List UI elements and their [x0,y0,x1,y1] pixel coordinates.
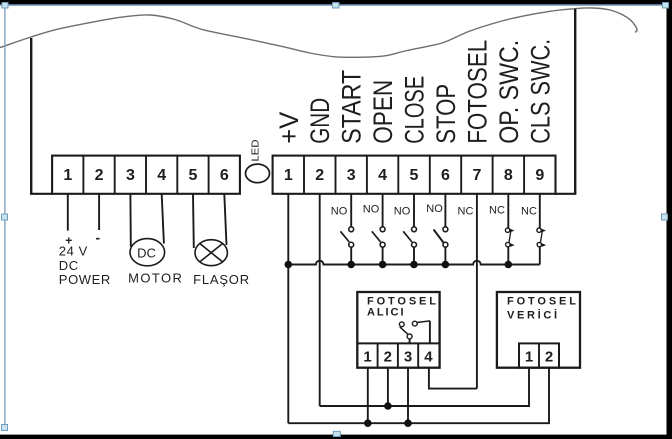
wire flasher right [224,194,226,245]
wire FOTOSEL down [476,194,478,389]
svg-text:NC: NC [458,205,474,217]
svg-text:CLOSE: CLOSE [400,76,430,144]
svg-text:2: 2 [315,167,324,184]
frame: blue top line [0,4,668,5]
svg-text:2: 2 [545,349,553,366]
svg-text:4: 4 [424,349,433,366]
VERICI terminal row [519,343,559,367]
svg-text:FLAŞOR: FLAŞOR [193,272,250,287]
svg-text:3: 3 [126,167,135,184]
svg-text:DC: DC [137,246,156,261]
VERICI terminal numbers [525,349,553,366]
svg-text:STOP: STOP [431,84,461,144]
right terminal block separators [304,156,524,194]
left terminal numbers 1-6 [63,167,229,184]
NO switch S4 (STOP) [434,194,448,265]
relay contact inside ALICI [399,321,430,344]
junction dots bottom [364,402,412,427]
ALICI terminal row [357,342,439,344]
board left edge [30,38,32,194]
svg-text:3: 3 [347,167,356,184]
svg-text:2: 2 [95,167,104,184]
svg-text:NC: NC [489,204,505,216]
common bus wire [288,261,540,265]
svg-text:7: 7 [472,167,481,184]
svg-text:NO: NO [363,204,380,216]
wire terminal1 left (+) [67,194,69,231]
svg-text:OPEN: OPEN [368,80,398,144]
svg-text:START: START [337,70,367,144]
svg-text:NO: NO [426,203,443,215]
svg-text:1: 1 [284,167,293,184]
vertical pin labels [274,39,556,144]
board torn top edge (wavy line) [0,8,637,57]
NC switch S5 (OP.SWC) [505,194,514,265]
svg-text:MOTOR: MOTOR [128,271,183,286]
board bottom-right edge [555,193,577,195]
wire motor left [129,194,131,247]
wire ALICI t4 to FOTOSEL [429,368,477,389]
right terminal numbers 1-9 [284,167,545,184]
left terminal block outline [52,156,240,194]
label 24V DC POWER [59,244,111,288]
svg-text:-: - [95,230,100,246]
wire ALICI t2 down [387,368,389,406]
svg-text:GND: GND [305,98,335,144]
LED indicator [246,164,270,183]
NC switch S6 (CLS.SWC) [537,194,546,265]
svg-text:FOTOSEL: FOTOSEL [462,40,492,144]
svg-text:LED: LED [250,139,262,161]
left terminal block separators [83,156,208,194]
svg-text:+V: +V [274,112,304,144]
FOTOSEL ALICI box [357,292,439,368]
frame: right black bar [667,0,672,439]
svg-text:5: 5 [410,167,419,184]
svg-text:CLS SWC.: CLS SWC. [525,39,555,144]
board right edge [574,9,576,194]
wire +V down [287,194,289,423]
svg-text:2: 2 [384,349,392,366]
svg-text:OP. SWC.: OP. SWC. [494,40,524,144]
svg-text:1: 1 [63,167,72,184]
svg-text:5: 5 [189,167,198,184]
frame: bottom black bar [0,435,672,439]
NO switch S2 (OPEN) [372,194,385,265]
flasher lamp [195,240,227,266]
ALICI terminal numbers [363,349,433,366]
NO switch S1 (START) [340,194,353,265]
svg-text:8: 8 [504,167,513,184]
wire ALICI t3 down [407,368,409,424]
svg-text:NO: NO [331,205,348,217]
svg-text:FOTOSEL: FOTOSEL [507,296,576,308]
svg-text:3: 3 [404,349,412,366]
svg-text:1: 1 [525,349,533,366]
+V horizontal run to VERICI t2 [288,368,549,424]
svg-text:DC: DC [59,258,79,273]
right terminal block outline [273,156,556,194]
svg-text:6: 6 [441,167,450,184]
svg-text:4: 4 [378,167,387,184]
svg-text:4: 4 [157,167,166,184]
svg-text:1: 1 [363,349,371,366]
GND horizontal run to VERICI t1 [320,368,529,406]
DC motor M1 [130,239,165,266]
board bottom-left edge [30,193,53,195]
contact labels NO/NC [331,203,537,217]
wire terminal2 left (-) [98,194,100,230]
svg-text:9: 9 [535,167,544,184]
wire ALICI t1 down [367,368,369,424]
FOTOSEL VERICI box [497,292,580,368]
svg-text:NO: NO [394,205,411,217]
wire GND down [319,194,321,406]
svg-text:NC: NC [521,205,537,217]
NO switch S3 (CLOSE) [403,194,416,265]
svg-text:24 V: 24 V [59,244,88,259]
svg-text:6: 6 [220,167,229,184]
bus junction dots [285,261,513,269]
svg-text:POWER: POWER [59,272,111,287]
frame: left blue line [4,5,5,430]
svg-text:ALICI: ALICI [367,306,404,318]
wire flasher left [192,194,195,248]
screenshot frame: top black bar [0,0,672,4]
wire motor right [162,194,164,244]
